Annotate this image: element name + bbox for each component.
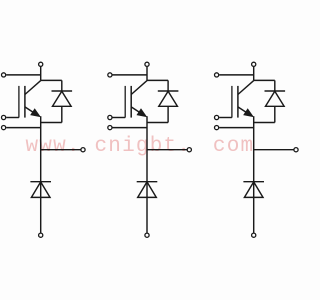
terminal mid node M1 [81, 148, 85, 152]
terminal gate G2 [108, 115, 112, 119]
node collector Q2 [147, 79, 168, 81]
wire diode D3a anode lead [274, 106, 276, 122]
transistor Q3 gate bar [231, 86, 233, 118]
terminal aux emitter E3aux [215, 126, 219, 130]
wire diode D2a cathode lead [167, 80, 169, 91]
diode D1b series (triangle) [31, 182, 50, 198]
transistor Q3 collector lead [238, 81, 254, 95]
wire collector vertical Q2 [146, 67, 148, 81]
transistor Q2 emitter arrow [137, 109, 146, 117]
diode D2b series (cathode bar) [137, 181, 158, 183]
terminal anode A1 (bottom) [39, 233, 43, 237]
transistor Q1 collector lead [25, 81, 41, 95]
terminal aux collector C2aux (left top) [108, 73, 112, 77]
transistor Q2 body bar [130, 86, 132, 118]
transistor Q2 emitter lead [131, 107, 141, 114]
wire aux emitter horizontal [6, 127, 41, 129]
transistor Q1 body bar [24, 86, 26, 118]
wire aux collector horizontal [113, 74, 148, 76]
wire aux collector horizontal [6, 74, 41, 76]
wire aux emitter horizontal [113, 127, 148, 129]
wire mid node branch [41, 149, 81, 151]
terminal anode A3 (bottom) [252, 233, 256, 237]
terminal mid node M2 [187, 148, 191, 152]
diode D3a freewheel (cathode bar) [265, 90, 286, 92]
diode D1a freewheel (cathode bar) [52, 90, 73, 92]
node collector Q1 [41, 79, 62, 81]
transistor Q2 collector lead [131, 81, 147, 95]
terminal collector C3 (top) [252, 62, 256, 66]
wire diode D1a cathode lead [61, 80, 63, 91]
transistor Q1 gate bar [18, 86, 20, 118]
wire gate Q2 [113, 117, 126, 119]
wire mid node branch [254, 149, 294, 151]
diode D2a freewheel (cathode bar) [158, 90, 179, 92]
diode D1b series (cathode bar) [30, 181, 51, 183]
wire gate Q1 [6, 117, 19, 119]
wire diode D3a cathode lead [274, 80, 276, 91]
svg-text:www. cnigbt. com: www. cnigbt. com [26, 135, 255, 158]
wire emitter to diode D3a anode [254, 122, 275, 124]
wire diode D2a anode lead [167, 106, 169, 122]
transistor Q2 gate bar [124, 86, 126, 118]
terminal collector C1 (top) [39, 62, 43, 66]
terminal aux collector C3aux (left top) [215, 73, 219, 77]
terminal aux emitter E2aux [108, 126, 112, 130]
wire mid node branch [147, 149, 187, 151]
transistor Q1 emitter arrow [31, 109, 40, 117]
diode D1a freewheel (triangle) [53, 91, 72, 106]
node collector Q3 [254, 79, 275, 81]
wire aux collector horizontal [219, 74, 254, 76]
terminal anode A2 (bottom) [145, 233, 149, 237]
diode D3a freewheel (triangle) [266, 91, 285, 106]
diode D2a freewheel (triangle) [159, 91, 178, 106]
terminal collector C2 (top) [145, 62, 149, 66]
terminal gate G1 [2, 115, 6, 119]
transistor Q3 emitter lead [238, 107, 248, 114]
wire aux emitter horizontal [219, 127, 254, 129]
diode D3b series (triangle) [244, 182, 263, 198]
wire collector vertical Q3 [253, 67, 255, 81]
wire diode D1a anode lead [61, 106, 63, 122]
terminal aux collector C1aux (left top) [2, 73, 6, 77]
wire collector vertical Q1 [40, 67, 42, 81]
transistor Q1 emitter lead [25, 107, 35, 114]
wire emitter vertical Q2 [146, 116, 148, 233]
terminal aux emitter E1aux [2, 126, 6, 130]
wire emitter vertical Q3 [253, 116, 255, 233]
wire emitter to diode D1a anode [41, 122, 62, 124]
wire emitter to diode D2a anode [147, 122, 168, 124]
diode D2b series (triangle) [138, 182, 157, 198]
transistor Q3 emitter arrow [244, 109, 253, 117]
wire gate Q3 [219, 117, 232, 119]
transistor Q3 body bar [237, 86, 239, 118]
terminal gate G3 [215, 115, 219, 119]
wire emitter vertical Q1 [40, 116, 42, 233]
diode D3b series (cathode bar) [243, 181, 264, 183]
terminal mid node M3 [294, 148, 298, 152]
